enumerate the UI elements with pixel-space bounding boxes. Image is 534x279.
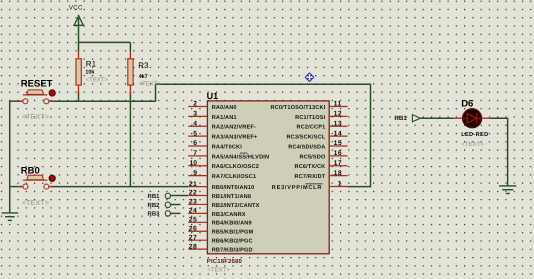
wire R3 bottom down to RB0 row <box>129 91 131 186</box>
svg-text:14: 14 <box>334 130 343 137</box>
pin 10 stub (left, RA6/CLKO/OSC2) <box>188 160 207 167</box>
svg-text:5: 5 <box>193 130 197 137</box>
svg-text:RC1/T1OSI: RC1/T1OSI <box>295 114 326 121</box>
svg-text:RB2: RB2 <box>147 202 160 209</box>
svg-text:RC7/RX/DT: RC7/RX/DT <box>295 173 326 180</box>
svg-text:3: 3 <box>193 111 197 118</box>
svg-text:23: 23 <box>189 199 198 206</box>
svg-text:<TEXT>: <TEXT> <box>139 81 162 88</box>
svg-text:RB4/KBI0/AN9: RB4/KBI0/AN9 <box>212 220 252 227</box>
svg-text:RB3: RB3 <box>147 210 160 217</box>
svg-text:4k7: 4k7 <box>139 74 148 80</box>
svg-text:10: 10 <box>189 160 197 167</box>
svg-text:16: 16 <box>334 150 343 157</box>
wire VCC branch to R3 <box>79 41 131 43</box>
pin 1 stub (right, RE3/VPP/MCLR) <box>329 181 347 188</box>
pin 14 stub (right, RC3/SCK/SCL) <box>329 130 347 137</box>
svg-text:13: 13 <box>334 120 343 127</box>
pin 17 stub (right, RC6/TX/CK) <box>329 160 347 167</box>
svg-text:RC0/T1OSO/T13CKI: RC0/T1OSO/T13CKI <box>270 104 325 111</box>
pin 3 stub (left, RA1/AN1) <box>188 111 207 118</box>
svg-text:RA7/CLKI/OSC1: RA7/CLKI/OSC1 <box>212 173 257 180</box>
svg-text:24: 24 <box>189 208 198 215</box>
svg-text:9: 9 <box>193 170 197 177</box>
pin 21 stub (left, RB0/INT0/AN10) <box>188 181 207 188</box>
svg-text:RC5/SDO: RC5/SDO <box>299 153 325 160</box>
terminal RB1 <box>394 115 420 122</box>
svg-text:RB5/KBI1/PGM: RB5/KBI1/PGM <box>212 229 254 236</box>
wire LED cathode to right ground <box>490 118 508 186</box>
svg-text:RB6/KBI2/PGC: RB6/KBI2/PGC <box>212 238 253 245</box>
wire MCLR route over chip to pin 1 <box>156 84 371 186</box>
svg-text:RB0/INT0/AN10: RB0/INT0/AN10 <box>212 184 255 191</box>
svg-text:RB3/CANRX: RB3/CANRX <box>212 211 246 218</box>
svg-text:26: 26 <box>189 225 198 232</box>
node RB3 <box>147 210 170 217</box>
button RESET <box>17 90 55 104</box>
wire RB0 row left <box>10 186 23 188</box>
pin 5 stub (left, RA3/AN3/VREF+) <box>188 130 207 137</box>
node RB2 <box>147 202 170 209</box>
wire reset row left <box>10 100 23 102</box>
svg-text:RA4/T0CKI: RA4/T0CKI <box>212 143 243 150</box>
svg-text:RE3/VPP/MCLR: RE3/VPP/MCLR <box>272 184 322 191</box>
pin 11 stub (right, RC0/T1OSO/T13CKI) <box>329 101 347 108</box>
pin label RE3/VPP/MCLR <box>272 184 323 191</box>
pin 15 stub (right, RC4/SDI/SDA) <box>329 140 347 147</box>
wire RB1 node to pin 22 <box>171 195 188 197</box>
LED D6 <box>453 109 491 128</box>
svg-text:15: 15 <box>334 140 343 147</box>
svg-text:RB0: RB0 <box>21 166 40 177</box>
svg-text:25: 25 <box>189 217 198 224</box>
wire RB0 row right to pin 21 <box>50 186 188 188</box>
svg-text:12: 12 <box>334 111 343 118</box>
svg-text:RB1: RB1 <box>147 193 160 200</box>
svg-text:VCC: VCC <box>69 4 83 11</box>
svg-text:18: 18 <box>334 170 343 177</box>
wire branch drop to R3 top <box>129 42 131 51</box>
svg-text:RA2/AN2/VREF-: RA2/AN2/VREF- <box>212 124 256 131</box>
ground left <box>2 213 19 221</box>
wire RB2 node to pin 23 <box>171 204 181 206</box>
pin 2 stub (left, RA0/AN0) <box>188 101 207 108</box>
svg-text:RC3/SCK/SCL: RC3/SCK/SCL <box>286 134 325 141</box>
svg-text:RA3/AN3/VREF+: RA3/AN3/VREF+ <box>212 134 258 141</box>
pin 18 stub (right, RC7/RX/DT) <box>329 170 347 177</box>
svg-text:RESET: RESET <box>21 78 53 89</box>
node RB1 <box>147 193 170 200</box>
svg-text:RB7/KBI3/PGD: RB7/KBI3/PGD <box>212 247 253 254</box>
pin 4 stub (left, RA2/AN2/VREF-) <box>188 120 207 127</box>
svg-text:RC6/TX/CK: RC6/TX/CK <box>295 163 326 170</box>
svg-text:17: 17 <box>334 160 343 167</box>
pin 24 stub (left, RB3/CANRX) <box>188 208 207 215</box>
wire RB3 node to pin 24 <box>171 212 181 214</box>
svg-text:RA0/AN0: RA0/AN0 <box>212 104 237 111</box>
wire VCC drop to R1 <box>78 15 80 52</box>
svg-text:22: 22 <box>189 190 198 197</box>
resistor R3 <box>128 52 133 95</box>
resistor R1 <box>76 52 81 95</box>
wire left vertical to ground <box>9 101 11 214</box>
svg-text:RC2/CCP1: RC2/CCP1 <box>297 124 326 131</box>
svg-text:28: 28 <box>189 243 198 250</box>
svg-text:<TEXT>: <TEXT> <box>86 77 109 84</box>
pin 25 stub (left, RB4/KBI0/AN9) <box>188 217 207 224</box>
pin 7 stub (left, RA5/AN4/SS/HLVDIN) <box>188 150 207 157</box>
svg-text:PIC18F2680: PIC18F2680 <box>207 258 243 265</box>
svg-text:10k: 10k <box>85 70 94 76</box>
svg-text:RC4/SDI/SDA: RC4/SDI/SDA <box>288 143 325 150</box>
svg-text:<TEXT>: <TEXT> <box>22 200 49 207</box>
pin 23 stub (left, RB2/INT2/CANTX) <box>188 199 207 206</box>
wire R1 bottom to reset row <box>78 91 80 101</box>
svg-text:RA6/CLKO/OSC2: RA6/CLKO/OSC2 <box>212 163 259 170</box>
wire reset row right to MCLR riser <box>49 100 156 102</box>
svg-text:RB1: RB1 <box>394 115 407 122</box>
svg-text:RA5/AN4/SS/HLVDIN: RA5/AN4/SS/HLVDIN <box>212 153 269 160</box>
svg-text:<TEXT>: <TEXT> <box>207 266 230 273</box>
svg-text:RB2/INT2/CANTX: RB2/INT2/CANTX <box>212 202 260 209</box>
svg-text:LED-RED: LED-RED <box>461 132 488 138</box>
ground right <box>499 186 517 194</box>
svg-text:<TEXT>: <TEXT> <box>22 114 49 121</box>
button RB0 <box>17 175 55 189</box>
svg-text:7: 7 <box>193 150 197 157</box>
svg-text:4: 4 <box>193 120 197 127</box>
pin 12 stub (right, RC1/T1OSI) <box>329 111 347 118</box>
svg-text:11: 11 <box>334 101 342 108</box>
pin label RA5/AN4/SS/HLVDIN <box>212 153 269 160</box>
pin 26 stub (left, RB5/KBI1/PGM) <box>188 225 207 232</box>
origin marker (blue diamond) <box>305 72 315 82</box>
svg-text:6: 6 <box>193 140 197 147</box>
pin 13 stub (right, RC2/CCP1) <box>329 120 347 127</box>
microcontroller U1 PIC18F2680 body <box>207 101 329 254</box>
svg-text:R1: R1 <box>86 59 97 68</box>
svg-text:U1: U1 <box>207 91 219 101</box>
svg-text:<TEXT>: <TEXT> <box>461 141 484 148</box>
pin 22 stub (left, RB1/INT1/AN8) <box>188 190 207 197</box>
pin 6 stub (left, RA4/T0CKI) <box>188 140 207 147</box>
svg-text:RA1/AN1: RA1/AN1 <box>212 114 237 121</box>
wire RB1 terminal to LED anode <box>420 117 453 119</box>
pin 27 stub (left, RB6/KBI2/PGC) <box>188 234 207 241</box>
pin 9 stub (left, RA7/CLKI/OSC1) <box>188 170 207 177</box>
svg-text:27: 27 <box>189 234 198 241</box>
svg-text:21: 21 <box>189 181 198 188</box>
svg-text:1: 1 <box>338 181 342 188</box>
svg-text:RB1/INT1/AN8: RB1/INT1/AN8 <box>212 193 251 200</box>
svg-text:R3: R3 <box>138 61 149 70</box>
svg-text:2: 2 <box>193 101 197 108</box>
svg-text:D6: D6 <box>461 99 473 110</box>
pin 16 stub (right, RC5/SDO) <box>329 150 347 157</box>
pin 28 stub (left, RB7/KBI3/PGD) <box>188 243 207 250</box>
